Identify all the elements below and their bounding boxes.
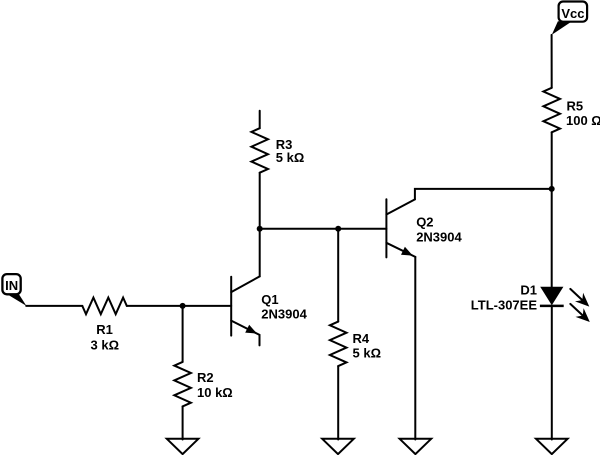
svg-text:Q2: Q2	[416, 215, 433, 230]
wire	[551, 35, 553, 88]
wire	[26, 305, 82, 307]
ground	[167, 439, 199, 454]
LED D1	[540, 287, 564, 306]
svg-text:Q1: Q1	[261, 292, 278, 307]
wire	[127, 305, 231, 307]
ground	[322, 439, 354, 454]
wire	[337, 229, 339, 322]
ground	[536, 439, 568, 454]
node Vcc (supply terminal)	[552, 2, 587, 35]
wire	[551, 132, 553, 287]
node A (R1/R2/Q1 base junction)	[180, 303, 186, 309]
resistor R2	[174, 362, 191, 407]
wire	[259, 229, 261, 277]
svg-text:LTL-307EE: LTL-307EE	[471, 298, 538, 313]
svg-text:10 kΩ: 10 kΩ	[197, 385, 233, 400]
svg-text:R1: R1	[96, 322, 113, 337]
node IN (input terminal)	[2, 274, 26, 306]
resistor R4	[330, 322, 347, 367]
wire	[259, 335, 261, 346]
svg-text:2N3904: 2N3904	[261, 306, 307, 321]
resistor R5	[543, 88, 560, 133]
svg-text:R5: R5	[567, 98, 584, 113]
wire	[182, 306, 184, 362]
transistor Q1 (2N3904 NPN)	[231, 276, 260, 335]
wire	[415, 189, 552, 200]
ground	[400, 439, 432, 454]
svg-text:2N3904: 2N3904	[416, 229, 462, 244]
wire	[259, 111, 261, 128]
node D (Q2 collector / R5 junction)	[549, 186, 555, 192]
svg-text:5 kΩ: 5 kΩ	[276, 150, 305, 165]
svg-text:100 Ω: 100 Ω	[566, 113, 600, 128]
svg-text:R2: R2	[197, 370, 214, 385]
LED D1 emission arrows	[570, 289, 590, 322]
svg-text:R4: R4	[353, 331, 370, 346]
svg-text:Vcc: Vcc	[561, 6, 584, 21]
resistor R3	[251, 128, 268, 173]
wire	[551, 306, 553, 440]
node C (R4 junction)	[335, 226, 341, 232]
svg-text:IN: IN	[5, 278, 18, 293]
wire	[337, 366, 339, 439]
svg-text:5 kΩ: 5 kΩ	[353, 346, 382, 361]
transistor Q2 (2N3904 NPN)	[386, 199, 415, 257]
node B (Q1 collector junction)	[257, 226, 263, 232]
wire	[260, 228, 387, 230]
wire	[259, 173, 261, 229]
svg-text:D1: D1	[520, 283, 537, 298]
wire	[182, 406, 184, 439]
resistor R1	[82, 298, 127, 315]
wire	[414, 257, 416, 440]
svg-text:3 kΩ: 3 kΩ	[91, 338, 120, 353]
